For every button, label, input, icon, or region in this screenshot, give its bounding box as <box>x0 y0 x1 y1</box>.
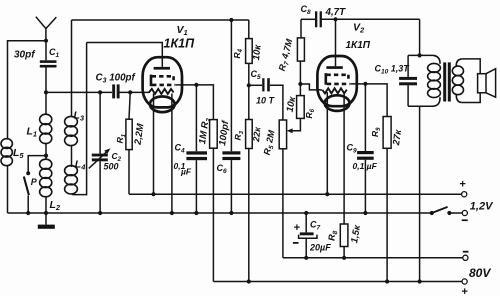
label minus 1,2V <box>462 219 468 221</box>
label minus 80V <box>463 251 469 253</box>
node bus2 C4 <box>194 211 198 215</box>
node R4-R3 junction <box>247 83 251 87</box>
node C6 branch <box>229 18 233 22</box>
svg-text:2,2М: 2,2М <box>132 122 146 147</box>
node bus2 L2 ground <box>44 211 48 215</box>
svg-text:27к: 27к <box>391 128 404 147</box>
capacitor C3 <box>112 84 119 98</box>
svg-text:R9: R9 <box>370 127 382 137</box>
svg-text:1,2V: 1,2V <box>470 201 494 213</box>
inductor L3 <box>65 116 78 167</box>
svg-text:+: + <box>459 179 466 191</box>
svg-text:100pf: 100pf <box>217 119 231 146</box>
tube V2 filament lead left <box>326 92 328 194</box>
resistor R1 <box>126 92 132 194</box>
tube V2 grid G2 dashed <box>326 74 348 77</box>
terminal 80V plus <box>462 279 467 284</box>
inductor L2 <box>40 156 52 213</box>
variable capacitor C2 <box>89 92 111 213</box>
svg-text:10к: 10к <box>251 43 264 61</box>
switch battery 1,2V <box>430 207 462 215</box>
wire output transformer feed <box>419 19 421 55</box>
node bus2 C2 <box>98 211 102 215</box>
svg-text:+: + <box>294 222 301 234</box>
capacitor C9 <box>357 84 374 213</box>
node antenna junction <box>44 39 48 43</box>
svg-text:R6: R6 <box>304 108 316 118</box>
tube V1 anode <box>154 67 170 70</box>
inductor L1 <box>40 92 52 155</box>
tube V2 base bulge <box>325 95 350 111</box>
wire L3 feed from top rail <box>71 20 73 117</box>
tube V1 filament <box>149 89 174 94</box>
node bus2b C7 <box>304 256 308 260</box>
wire bus3 plus80 <box>213 281 461 283</box>
transformer core <box>443 62 446 101</box>
node bus2 C7 <box>304 211 308 215</box>
node bus1 V2 filament <box>325 192 329 196</box>
node V2 anode branch <box>333 17 337 21</box>
wire top rail A <box>72 19 249 21</box>
tube V1 filament lead right <box>171 94 173 214</box>
wire bus2b minus80 <box>283 257 463 259</box>
capacitor C8 <box>301 11 420 27</box>
svg-text:L4: L4 <box>75 159 86 172</box>
svg-text:L3: L3 <box>74 110 85 123</box>
svg-text:C7: C7 <box>310 220 321 232</box>
svg-text:L1: L1 <box>27 126 38 139</box>
svg-text:L2: L2 <box>50 199 61 212</box>
resistor R4 <box>246 20 253 85</box>
svg-text:C3 100pf: C3 100pf <box>96 73 137 85</box>
node C4 branch <box>194 83 198 87</box>
svg-text:C4: C4 <box>175 143 186 155</box>
svg-text:R8: R8 <box>327 230 340 241</box>
resistor R8 <box>340 224 348 258</box>
node bus2 switch P <box>26 211 30 215</box>
node bus2 C6 <box>229 211 233 215</box>
node bus2b R8 <box>342 256 346 260</box>
tube V2 envelope <box>317 56 356 106</box>
tube V1 base bulge <box>150 97 175 113</box>
tube V2 grid G1 dashed <box>327 83 350 86</box>
node bus2 C9 <box>363 211 367 215</box>
transformer T primary <box>408 55 440 281</box>
resistor R6 <box>297 84 305 118</box>
tube V1 envelope <box>143 57 182 107</box>
svg-text:1К1П: 1К1П <box>164 37 196 51</box>
svg-text:1,5к: 1,5к <box>349 223 363 244</box>
tube V1 grid lead hook <box>151 75 174 87</box>
tube V2 filament lead right <box>343 92 345 224</box>
switch P <box>24 156 46 213</box>
node bus3 R9 <box>385 279 389 283</box>
capacitor C10 <box>399 55 417 106</box>
svg-text:1К1П: 1К1П <box>346 40 371 51</box>
svg-text:80V: 80V <box>469 266 491 280</box>
tube V1 grid G1 dashed <box>152 84 175 87</box>
node bus3 R3 <box>247 279 251 283</box>
node bus1 V1 filament <box>151 192 155 196</box>
wire V2 grid entry <box>300 84 322 90</box>
svg-text:C9: C9 <box>347 143 358 155</box>
resistor R3 <box>246 85 253 281</box>
node bus2 V1 filament <box>170 211 174 215</box>
svg-text:20µF: 20µF <box>309 243 331 253</box>
tube V2 filament <box>322 88 346 93</box>
node C1 bottom <box>44 90 48 94</box>
wire C3 right to tube V1 <box>120 91 151 93</box>
svg-text:C8: C8 <box>301 4 312 16</box>
wire anode V1 <box>87 43 163 67</box>
svg-text:C6: C6 <box>217 163 228 175</box>
terminal 80V minus <box>463 255 468 260</box>
terminal 1,2V minus <box>462 210 467 215</box>
wire grid bus y=92.4 <box>46 91 112 93</box>
wire bus1 filament plus <box>129 193 461 195</box>
capacitor C4 <box>186 85 207 213</box>
svg-text:22к: 22к <box>251 126 263 143</box>
svg-text:µF: µF <box>180 167 192 177</box>
resistor R9 <box>383 117 391 282</box>
tube V2 grid lead hook <box>326 73 349 85</box>
wire V2 anode stem <box>335 19 337 66</box>
svg-text:+: + <box>461 286 468 296</box>
capacitor C7 electrolytic <box>299 213 317 258</box>
node R1 top <box>128 90 132 94</box>
svg-text:R5 2М: R5 2М <box>262 129 279 157</box>
svg-text:R3: R3 <box>233 130 246 141</box>
svg-text:500: 500 <box>104 162 119 172</box>
tube V1 grid G2 dashed <box>152 75 174 78</box>
ground <box>38 213 55 229</box>
svg-text:4,7Т: 4,7Т <box>325 7 347 18</box>
svg-text:R7 4,7М: R7 4,7М <box>277 37 297 72</box>
wire V2 screen out <box>350 84 387 117</box>
svg-text:C10 1,3Т: C10 1,3Т <box>375 64 411 76</box>
svg-text:0,1 µF: 0,1 µF <box>353 161 378 171</box>
wire transformer top bar <box>408 54 433 56</box>
tube V2 anode <box>326 66 342 69</box>
svg-text:L5: L5 <box>13 147 24 160</box>
svg-text:V2: V2 <box>353 22 365 35</box>
svg-text:30pf: 30pf <box>14 50 36 61</box>
node L1-L2 tap <box>44 154 48 158</box>
wiper arrow R5 <box>287 118 301 133</box>
resistor R2 <box>210 120 218 282</box>
wire V1 screen to R2 <box>175 85 213 120</box>
terminal 1,2V plus <box>462 192 467 197</box>
svg-text:C1: C1 <box>49 47 60 59</box>
loudspeaker <box>478 69 496 98</box>
capacitor C6 <box>222 20 240 213</box>
wire antenna to left column <box>8 41 47 140</box>
node C9 branch <box>363 82 367 86</box>
svg-text:Р: Р <box>31 177 38 187</box>
svg-text:R4: R4 <box>232 48 244 58</box>
capacitor C1 <box>40 41 57 93</box>
node C2 top <box>98 90 102 94</box>
transformer T secondary <box>452 59 480 103</box>
capacitor C5 <box>249 78 283 120</box>
node V2 grid junction <box>298 82 302 86</box>
inductor L5 <box>1 139 12 213</box>
node bus3 transformer <box>418 279 422 283</box>
tube V1 filament lead left <box>153 94 155 195</box>
resistor R5 potentiometer <box>279 120 286 258</box>
inductor L4 <box>65 43 87 195</box>
antenna W1 <box>36 17 57 41</box>
resistor R7 <box>297 19 304 84</box>
svg-text:10 Т: 10 Т <box>256 96 276 106</box>
wire bus2 common <box>8 212 432 214</box>
label minus C7 <box>293 242 299 244</box>
svg-text:V1: V1 <box>177 24 188 37</box>
svg-text:C5: C5 <box>251 69 262 81</box>
node transformer top <box>418 53 422 57</box>
